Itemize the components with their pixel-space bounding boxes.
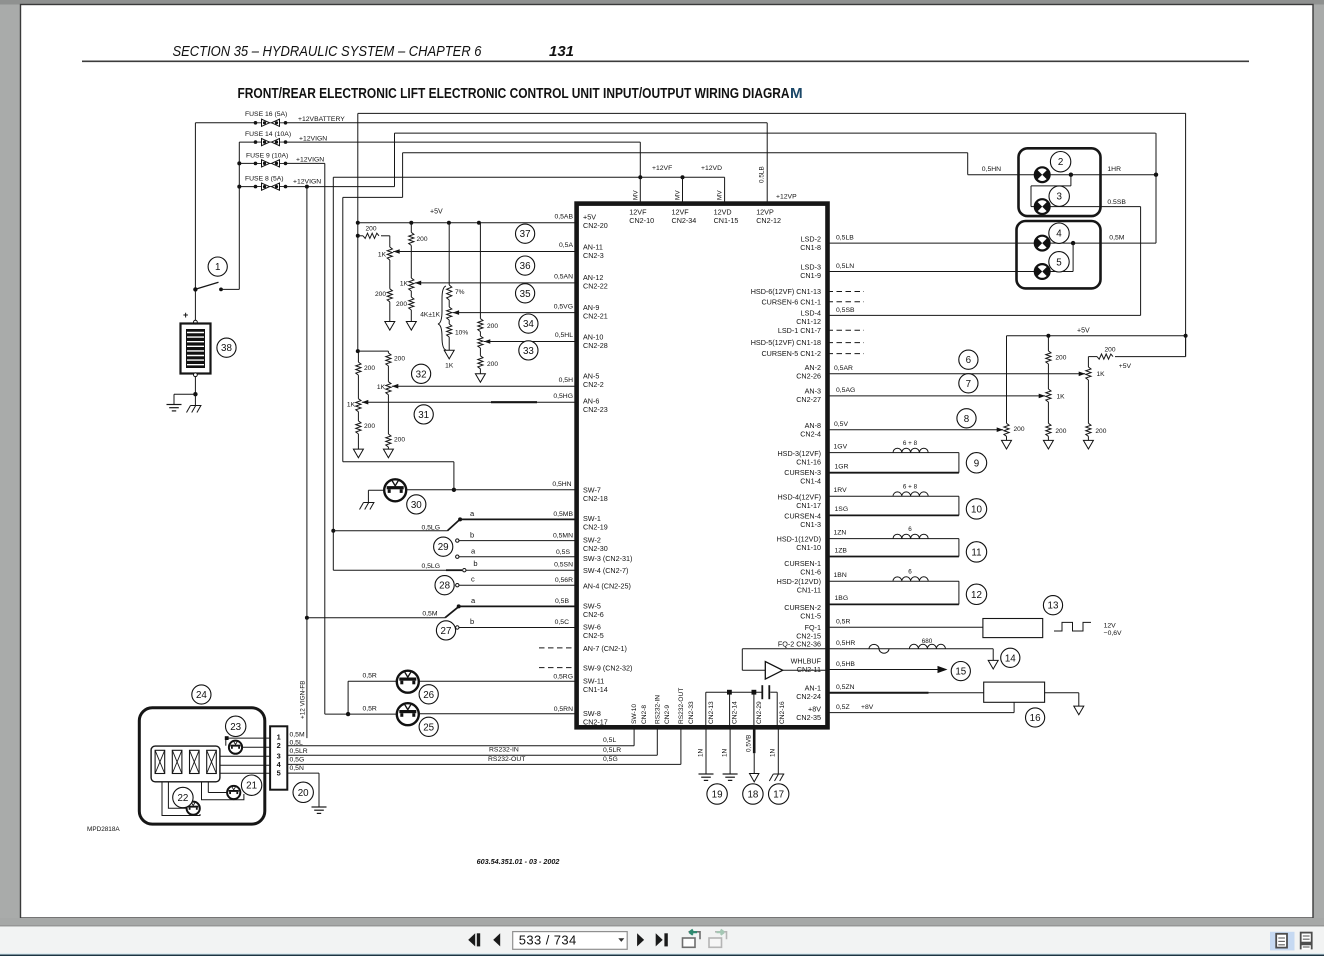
svg-text:200: 200 xyxy=(396,301,407,308)
svg-text:1N: 1N xyxy=(722,748,729,757)
svg-text:0,5M: 0,5M xyxy=(1109,235,1124,242)
svg-text:26: 26 xyxy=(423,690,434,701)
svg-text:0,5LR: 0,5LR xyxy=(603,747,621,754)
svg-text:CN2-18: CN2-18 xyxy=(583,494,608,503)
svg-text:CN1-15: CN1-15 xyxy=(714,216,739,225)
svg-text:11: 11 xyxy=(971,547,981,558)
svg-text:CN2-19: CN2-19 xyxy=(583,523,608,532)
svg-text:CN2-14: CN2-14 xyxy=(732,701,739,724)
svg-text:CN1-8: CN1-8 xyxy=(800,243,821,252)
svg-text:1N: 1N xyxy=(770,748,777,757)
svg-text:0,5AB: 0,5AB xyxy=(554,214,573,221)
svg-text:FRONT/REAR ELECTRONIC LIFT ELE: FRONT/REAR ELECTRONIC LIFT ELECTRONIC CO… xyxy=(238,85,790,102)
svg-text:CN2-27: CN2-27 xyxy=(796,395,821,404)
svg-text:7%: 7% xyxy=(455,289,465,296)
svg-text:0,5R: 0,5R xyxy=(836,619,850,626)
svg-text:131: 131 xyxy=(549,43,574,60)
svg-text:1: 1 xyxy=(215,262,220,273)
svg-text:1HR: 1HR xyxy=(1107,166,1121,173)
svg-text:200: 200 xyxy=(1055,428,1066,435)
svg-text:0,5HN: 0,5HN xyxy=(552,481,571,488)
svg-text:0,5RG: 0,5RG xyxy=(553,674,573,681)
svg-text:+12VBATTERY: +12VBATTERY xyxy=(298,116,345,123)
svg-text:+8V: +8V xyxy=(861,704,874,711)
svg-text:HSD-5(12VF) CN1-18: HSD-5(12VF) CN1-18 xyxy=(751,338,821,347)
svg-text:2: 2 xyxy=(277,741,281,750)
svg-text:20: 20 xyxy=(298,788,309,799)
svg-text:+12VIGN: +12VIGN xyxy=(293,179,321,186)
svg-text:b: b xyxy=(470,530,474,539)
svg-text:200: 200 xyxy=(365,225,376,232)
svg-text:RS232-IN: RS232-IN xyxy=(489,747,519,754)
svg-text:1ZN: 1ZN xyxy=(834,529,847,536)
svg-text:14: 14 xyxy=(1005,653,1016,664)
svg-text:CN1-9: CN1-9 xyxy=(800,271,821,280)
svg-text:200: 200 xyxy=(1055,354,1066,361)
svg-text:0,5VG: 0,5VG xyxy=(554,303,573,310)
svg-text:200: 200 xyxy=(375,291,386,298)
svg-text:200: 200 xyxy=(487,361,498,368)
svg-text:1BN: 1BN xyxy=(834,572,847,579)
svg-text:38: 38 xyxy=(221,343,232,354)
svg-text:12V: 12V xyxy=(1104,622,1117,629)
svg-text:CN2-12: CN2-12 xyxy=(756,216,781,225)
svg-text:0,5L: 0,5L xyxy=(603,737,616,744)
svg-text:0,5S: 0,5S xyxy=(556,549,570,556)
svg-text:200: 200 xyxy=(487,323,498,330)
svg-text:7: 7 xyxy=(966,379,971,390)
svg-text:CN2-3: CN2-3 xyxy=(583,251,604,260)
svg-text:6 + 8: 6 + 8 xyxy=(903,484,918,491)
svg-text:0,5SB: 0,5SB xyxy=(836,307,855,314)
svg-text:13: 13 xyxy=(1048,601,1059,612)
svg-text:CN2-28: CN2-28 xyxy=(583,341,608,350)
svg-text:CN1-5: CN1-5 xyxy=(800,612,821,621)
svg-text:1SG: 1SG xyxy=(835,506,849,513)
svg-text:SECTION 35 – HYDRAULIC SYSTEM: SECTION 35 – HYDRAULIC SYSTEM – CHAPTER … xyxy=(173,43,483,60)
svg-text:3: 3 xyxy=(277,751,281,760)
svg-text:6: 6 xyxy=(966,355,972,366)
svg-text:12: 12 xyxy=(971,590,982,601)
svg-text:CURSEN-5 CN1-2: CURSEN-5 CN1-2 xyxy=(761,349,821,358)
svg-text:0,5LR: 0,5LR xyxy=(290,748,308,755)
svg-text:CN2-33: CN2-33 xyxy=(688,701,695,724)
svg-text:28: 28 xyxy=(439,581,450,592)
svg-text:MV: MV xyxy=(717,190,724,200)
svg-text:1K: 1K xyxy=(1057,394,1066,401)
svg-text:200: 200 xyxy=(364,365,375,372)
svg-text:CN1-4: CN1-4 xyxy=(800,477,821,486)
svg-text:0,5C: 0,5C xyxy=(555,619,569,626)
svg-text:22: 22 xyxy=(177,793,188,804)
svg-text:0,5RN: 0,5RN xyxy=(554,706,573,713)
svg-text:533 / 734: 533 / 734 xyxy=(519,933,577,948)
svg-text:0,5HB: 0,5HB xyxy=(836,661,855,668)
svg-text:CURSEN-6 CN1-1: CURSEN-6 CN1-1 xyxy=(761,298,821,307)
svg-text:0,5B: 0,5B xyxy=(555,598,569,605)
svg-text:0,5R: 0,5R xyxy=(362,672,376,679)
svg-text:0,5N: 0,5N xyxy=(290,765,304,772)
svg-text:FUSE 9 (10A): FUSE 9 (10A) xyxy=(246,152,288,159)
svg-text:4: 4 xyxy=(1056,229,1062,240)
svg-text:CN2-34: CN2-34 xyxy=(672,216,697,225)
svg-text:−0,6V: −0,6V xyxy=(1104,630,1122,637)
svg-text:CN2-29: CN2-29 xyxy=(756,701,763,724)
svg-text:CN2-30: CN2-30 xyxy=(583,544,608,553)
svg-text:0,5L: 0,5L xyxy=(290,739,303,746)
svg-text:0,5HR: 0,5HR xyxy=(836,640,855,647)
svg-text:CN1-10: CN1-10 xyxy=(796,543,821,552)
svg-text:HSD-6(12VF) CN1-13: HSD-6(12VF) CN1-13 xyxy=(751,287,821,296)
svg-text:M: M xyxy=(790,85,803,102)
svg-text:0,5A: 0,5A xyxy=(559,242,573,249)
svg-text:31: 31 xyxy=(418,410,429,421)
svg-text:1K: 1K xyxy=(1097,371,1106,378)
svg-text:0,5HN: 0,5HN xyxy=(982,166,1001,173)
svg-text:27: 27 xyxy=(441,626,452,637)
svg-text:FUSE 14 (10A): FUSE 14 (10A) xyxy=(245,131,291,138)
svg-text:37: 37 xyxy=(520,229,531,240)
svg-text:2: 2 xyxy=(1058,157,1063,168)
svg-text:MV: MV xyxy=(632,190,639,200)
svg-text:0,5HL: 0,5HL xyxy=(555,332,573,339)
svg-text:10%: 10% xyxy=(455,330,468,337)
svg-text:CN2-24: CN2-24 xyxy=(796,692,821,701)
svg-text:SW-3 (CN2-31): SW-3 (CN2-31) xyxy=(583,554,632,563)
svg-text:CN1-11: CN1-11 xyxy=(797,586,821,595)
svg-text:0,5Z: 0,5Z xyxy=(836,704,850,711)
svg-text:1K: 1K xyxy=(378,252,387,259)
svg-text:200: 200 xyxy=(1104,346,1115,353)
svg-text:CN1-3: CN1-3 xyxy=(800,520,821,529)
svg-text:+12VIGN: +12VIGN xyxy=(296,157,324,164)
svg-text:6: 6 xyxy=(908,568,912,575)
svg-text:CN2-21: CN2-21 xyxy=(583,312,608,321)
svg-text:CN1-14: CN1-14 xyxy=(583,685,608,694)
svg-text:1N: 1N xyxy=(697,748,704,757)
svg-text:0.5LB: 0.5LB xyxy=(759,166,766,183)
svg-text:+12 VIGN-FB: +12 VIGN-FB xyxy=(300,680,307,719)
svg-text:CN2-8: CN2-8 xyxy=(641,705,648,724)
svg-text:+12VD: +12VD xyxy=(701,165,722,172)
svg-text:CN2-23: CN2-23 xyxy=(583,405,608,414)
svg-text:0,5AN: 0,5AN xyxy=(554,274,573,281)
svg-text:10: 10 xyxy=(971,504,982,515)
svg-text:CN2-35: CN2-35 xyxy=(796,713,821,722)
svg-text:FUSE 16 (5A): FUSE 16 (5A) xyxy=(245,111,287,118)
svg-text:0,5LN: 0,5LN xyxy=(836,263,854,270)
svg-text:1ZB: 1ZB xyxy=(835,547,848,554)
svg-text:+12VIGN: +12VIGN xyxy=(299,136,327,143)
svg-text:CN2-16: CN2-16 xyxy=(779,701,786,724)
svg-text:RS232-OUT: RS232-OUT xyxy=(678,688,685,724)
svg-text:0,5MB: 0,5MB xyxy=(553,511,573,518)
svg-text:AN-4 (CN2-25): AN-4 (CN2-25) xyxy=(583,581,631,590)
svg-text:200: 200 xyxy=(364,423,375,430)
svg-text:0.5SB: 0.5SB xyxy=(1107,199,1126,206)
svg-text:36: 36 xyxy=(520,261,531,272)
svg-text:CN2-22: CN2-22 xyxy=(583,282,608,291)
svg-text:LSD-1 CN1-7: LSD-1 CN1-7 xyxy=(778,326,821,335)
svg-text:32: 32 xyxy=(416,369,427,380)
svg-text:1K: 1K xyxy=(445,362,454,369)
svg-text:CN2-11: CN2-11 xyxy=(797,665,821,674)
svg-text:SW-4 (CN2-7): SW-4 (CN2-7) xyxy=(583,566,628,575)
svg-text:b: b xyxy=(473,559,477,568)
svg-text:0,5LB: 0,5LB xyxy=(836,235,854,242)
svg-text:0,5M: 0,5M xyxy=(422,610,437,617)
svg-text:1K: 1K xyxy=(400,281,409,288)
svg-text:AN-7 (CN2-1): AN-7 (CN2-1) xyxy=(583,644,627,653)
svg-text:18: 18 xyxy=(747,790,758,801)
svg-text:8: 8 xyxy=(964,414,970,425)
svg-text:35: 35 xyxy=(520,289,531,300)
svg-text:1RV: 1RV xyxy=(834,487,848,494)
svg-text:6 + 8: 6 + 8 xyxy=(903,440,918,447)
svg-text:+5V: +5V xyxy=(1077,327,1090,334)
svg-text:CN1-12: CN1-12 xyxy=(796,317,821,326)
svg-text:200: 200 xyxy=(1095,428,1106,435)
svg-text:19: 19 xyxy=(712,790,723,801)
svg-text:0,5LG: 0,5LG xyxy=(421,563,440,570)
svg-text:5: 5 xyxy=(277,769,281,778)
svg-text:0,5G: 0,5G xyxy=(603,756,618,763)
svg-text:MPD2818A: MPD2818A xyxy=(87,826,120,833)
svg-text:+12VP: +12VP xyxy=(776,194,797,201)
svg-text:200: 200 xyxy=(394,437,405,444)
svg-text:16: 16 xyxy=(1030,713,1041,724)
svg-text:CN2-9: CN2-9 xyxy=(664,705,671,724)
svg-text:CN2-20: CN2-20 xyxy=(583,221,608,230)
svg-text:CN2-10: CN2-10 xyxy=(629,216,654,225)
svg-text:0,5SN: 0,5SN xyxy=(554,561,573,568)
svg-text:29: 29 xyxy=(438,542,449,553)
svg-text:SW-10: SW-10 xyxy=(631,704,638,724)
svg-text:21: 21 xyxy=(246,781,257,792)
svg-text:FQ-2 CN2-36: FQ-2 CN2-36 xyxy=(778,640,821,649)
svg-text:0,5V: 0,5V xyxy=(834,421,848,428)
svg-text:17: 17 xyxy=(773,790,784,801)
svg-text:6: 6 xyxy=(908,526,912,533)
svg-text:1GR: 1GR xyxy=(835,464,849,471)
svg-text:0,5HG: 0,5HG xyxy=(553,393,573,400)
svg-text:+12VF: +12VF xyxy=(652,165,672,172)
svg-text:200: 200 xyxy=(417,236,428,243)
svg-text:SW-9 (CN2-32): SW-9 (CN2-32) xyxy=(583,664,632,673)
svg-text:0,5AG: 0,5AG xyxy=(836,387,855,394)
svg-text:23: 23 xyxy=(230,722,241,733)
svg-text:CN2-6: CN2-6 xyxy=(583,610,604,619)
svg-text:33: 33 xyxy=(523,346,534,357)
svg-text:FUSE 8 (5A): FUSE 8 (5A) xyxy=(245,176,284,183)
svg-text:34: 34 xyxy=(523,319,534,330)
svg-text:0,5ZN: 0,5ZN xyxy=(836,684,855,691)
svg-text:0,5MN: 0,5MN xyxy=(553,533,573,540)
svg-text:1GV: 1GV xyxy=(834,443,848,450)
svg-text:603.54.351.01 - 03 - 2002: 603.54.351.01 - 03 - 2002 xyxy=(477,857,560,866)
svg-text:+5V: +5V xyxy=(1119,363,1132,370)
svg-text:+: + xyxy=(183,310,188,320)
svg-text:3: 3 xyxy=(1056,192,1062,203)
svg-text:0,56R: 0,56R xyxy=(555,577,573,584)
svg-text:0,5R: 0,5R xyxy=(362,705,376,712)
svg-text:CN2-5: CN2-5 xyxy=(583,631,604,640)
svg-text:0,5G: 0,5G xyxy=(290,757,305,764)
svg-text:30: 30 xyxy=(411,500,422,511)
svg-text:CN2-26: CN2-26 xyxy=(796,372,821,381)
svg-text:CN2-4: CN2-4 xyxy=(800,430,821,439)
svg-text:1BG: 1BG xyxy=(835,595,849,602)
svg-text:c: c xyxy=(471,575,475,584)
svg-text:1K: 1K xyxy=(347,401,356,408)
svg-text:1: 1 xyxy=(277,732,281,741)
svg-text:200: 200 xyxy=(1014,426,1025,433)
svg-text:b: b xyxy=(470,617,474,626)
svg-text:CN1-6: CN1-6 xyxy=(800,568,821,577)
svg-text:CN2-2: CN2-2 xyxy=(583,380,604,389)
svg-text:CN1-17: CN1-17 xyxy=(796,501,821,510)
svg-text:0,5VB: 0,5VB xyxy=(746,735,753,752)
svg-text:4K±1K: 4K±1K xyxy=(420,312,440,319)
svg-text:RS232-IN: RS232-IN xyxy=(655,695,662,724)
svg-text:0,5AR: 0,5AR xyxy=(834,365,853,372)
svg-text:0,5M: 0,5M xyxy=(290,731,305,738)
svg-text:25: 25 xyxy=(423,722,434,733)
svg-text:24: 24 xyxy=(196,690,207,701)
svg-text:200: 200 xyxy=(394,356,405,363)
svg-text:MV: MV xyxy=(675,190,682,200)
svg-text:5: 5 xyxy=(1056,257,1062,268)
svg-text:15: 15 xyxy=(955,667,966,678)
svg-text:CN2-13: CN2-13 xyxy=(708,701,715,724)
svg-text:CN2-17: CN2-17 xyxy=(583,718,608,727)
svg-text:0,5H: 0,5H xyxy=(559,377,573,384)
svg-text:RS232-OUT: RS232-OUT xyxy=(488,756,525,763)
svg-text:9: 9 xyxy=(974,458,979,469)
svg-text:+5V: +5V xyxy=(430,209,443,216)
svg-text:1K: 1K xyxy=(377,384,386,391)
svg-text:CN1-16: CN1-16 xyxy=(796,458,821,467)
